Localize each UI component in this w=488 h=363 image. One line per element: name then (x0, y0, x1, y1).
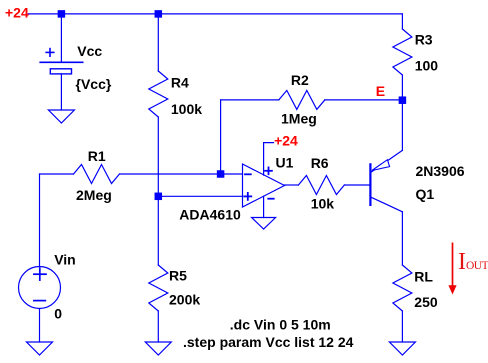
junction top rail / R4 (155, 10, 163, 18)
resistor R1 body (74, 165, 120, 184)
transistor Q1 emitter arrow (372, 160, 390, 171)
svg-text:.step param Vcc list 12 24: .step param Vcc list 12 24 (183, 334, 354, 350)
svg-text:2N3906: 2N3906 (416, 163, 465, 179)
ground below Vcc (48, 110, 74, 123)
svg-text:0: 0 (54, 306, 62, 322)
wire op-amp output (285, 184, 299, 186)
wire R2 left vertical (220, 100, 222, 174)
resistor R5 body (149, 265, 168, 311)
battery V1 bottom plate (50, 69, 71, 74)
annotation IOUT arrow line (452, 243, 454, 287)
svg-text:1Meg: 1Meg (281, 110, 317, 126)
svg-text:R5: R5 (169, 268, 187, 284)
wire R2 left horizontal (221, 99, 279, 101)
battery V1 plus marker (46, 49, 54, 57)
transistor Q1 collector diagonal (370, 197, 402, 212)
wire rail x158 middle (157, 117, 159, 265)
svg-text:100: 100 (415, 58, 439, 74)
wire rail x158 lower (157, 311, 159, 342)
wire rail x158 upper (157, 14, 159, 71)
op-amp U1 triangle (243, 164, 285, 207)
svg-text:2Meg: 2Meg (76, 187, 112, 203)
wire op-amp V+ supply (264, 143, 274, 176)
svg-text:ADA4610: ADA4610 (179, 207, 241, 223)
ground below op-amp (252, 218, 276, 230)
resistor R4 body (149, 71, 168, 117)
transistor Q1 base bar (369, 164, 371, 205)
svg-text:R1: R1 (88, 148, 106, 164)
wire battery to ground (60, 74, 62, 110)
junction R1 wire / R2 branch (217, 170, 225, 178)
Vin plus marker (34, 268, 46, 280)
svg-text:R4: R4 (171, 75, 189, 91)
svg-text:+24: +24 (5, 5, 29, 21)
wire Vcc branch top (60, 14, 62, 62)
op-amp noninverting input marker (244, 193, 251, 200)
svg-text:R3: R3 (415, 32, 433, 48)
battery V1 top plate (40, 61, 82, 63)
ground below RL (389, 342, 415, 355)
resistor R6 body (298, 176, 344, 195)
junction node E (399, 96, 407, 104)
wire Vin bottom (39, 309, 41, 343)
svg-text:250: 250 (414, 294, 438, 310)
junction top rail / Vcc (58, 10, 66, 18)
wire RL bottom (401, 311, 403, 342)
ground below R5 (145, 342, 171, 355)
svg-text:.dc Vin 0 5 10m: .dc Vin 0 5 10m (230, 317, 331, 333)
wire top rail (28, 13, 402, 15)
transistor Q1 emitter diagonal (371, 150, 403, 172)
svg-text:10k: 10k (311, 195, 335, 211)
wire R2 right to node E (325, 99, 403, 101)
svg-text:E: E (376, 83, 385, 99)
wire R1 right to op-amp inverting input (120, 173, 243, 175)
op-amp V- marker (268, 198, 273, 200)
op-amp inverting input marker (245, 173, 251, 175)
annotation IOUT arrowhead (448, 285, 456, 294)
svg-text:Q1: Q1 (416, 186, 435, 202)
resistor R3 body (393, 29, 412, 75)
wire collector down (401, 212, 403, 265)
wire R3 top drop (401, 14, 403, 29)
wire R6 to Q1 base (344, 184, 370, 186)
svg-text:Vin: Vin (54, 252, 76, 268)
svg-text:200k: 200k (169, 292, 200, 308)
resistor RL body (393, 265, 412, 311)
svg-text:R2: R2 (291, 72, 309, 88)
wire op-amp V- to ground (263, 196, 265, 217)
ground below Vin (27, 342, 53, 355)
svg-text:U1: U1 (276, 155, 294, 171)
svg-text:{Vcc}: {Vcc} (76, 76, 112, 92)
op-amp V+ marker (265, 167, 272, 174)
wire R1 left (40, 173, 74, 175)
svg-text:Vcc: Vcc (77, 43, 102, 59)
svg-text:100k: 100k (171, 101, 202, 117)
resistor R2 body (279, 90, 325, 109)
voltage source Vin circle (19, 267, 61, 309)
junction rail / noninverting input (155, 193, 163, 201)
svg-text:+24: +24 (274, 133, 298, 149)
wire op-amp noninverting input (158, 195, 242, 197)
svg-text:R6: R6 (311, 155, 329, 171)
wire R3 to node E to emitter (401, 75, 403, 150)
Vin minus marker (34, 300, 45, 302)
svg-text:RL: RL (414, 269, 433, 285)
wire Vin top (39, 174, 41, 267)
